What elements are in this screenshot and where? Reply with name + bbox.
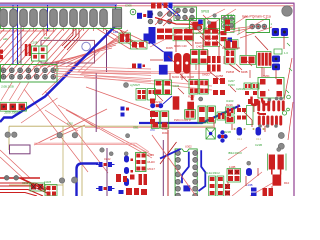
svg-text:43.2: 43.2 — [256, 137, 262, 141]
inductor bottom finger pads — [258, 116, 261, 126]
inductor pads two red bars top-right-bottom — [277, 148, 281, 152]
wire ratsnest fan from connector J101 pads — [0, 28, 114, 80]
red pads left edge y49-59 — [0, 50, 3, 54]
red vertical line x168 — [167, 130, 169, 196]
capacitor C0304 green box — [45, 185, 57, 197]
wire red diagonal down-left to x50 — [50, 125, 85, 140]
via x126 y85 — [124, 83, 129, 88]
silkscreen J209 outline — [0, 102, 27, 111]
diode D201 D202 green boxes with red bars — [191, 50, 199, 65]
purple keepout box mid-left — [41, 40, 95, 63]
wire red interconnect traces right half — [120, 30, 284, 132]
red pad cluster bottom middle — [116, 174, 121, 182]
diode pads x225-240 y40-49 — [226, 41, 231, 49]
capacitor blue capsule with via — [247, 161, 251, 165]
resistors column right of U302 — [209, 176, 216, 196]
svg-text:E320: E320 — [148, 153, 155, 157]
capacitor blue capsule pair bottom — [237, 127, 243, 136]
resistor array green box x135-146 — [136, 153, 147, 172]
via x200.7 y99 — [199, 97, 203, 101]
pad red x187 y101-110 — [187, 102, 194, 110]
diode D401 box upper — [225, 50, 235, 65]
wire pink double y143.2/144.6 — [34, 143, 149, 153]
connector J101 silkscreen outline — [1, 8, 122, 29]
vias near U401 — [197, 26, 201, 30]
svg-text:SH2D: SH2D — [202, 73, 209, 77]
svg-text:C0304: C0304 — [22, 181, 30, 185]
board outline right edge — [293, 3, 295, 196]
resistor bank x206-221 y56-72 — [207, 56, 211, 63]
svg-text:160: 160 — [113, 30, 118, 34]
fiducial green X box — [206, 128, 215, 139]
svg-text:laaa-PQmain-C11a: laaa-PQmain-C11a — [242, 15, 271, 19]
svg-text:41025: 41025 — [44, 180, 52, 184]
via holes right edge pair — [278, 133, 284, 139]
wire ratsnest fan from header J102 to upper right — [33, 30, 128, 67]
wire red 45-degree bent bundle above big box — [62, 28, 79, 50]
wire pink band upper pair y71.8/73.4 — [78, 51, 212, 72]
svg-text:840B: 840B — [241, 70, 248, 74]
capacitors C210 C211 vertical green boxes — [151, 111, 159, 128]
pads blue bottom — [251, 188, 257, 192]
svg-text:cg?202?: cg?202? — [130, 83, 141, 87]
inductor L201 serpentine red trace — [252, 97, 258, 106]
board outline top edge — [0, 2, 295, 4]
wire ratsnest bottom-left corner — [0, 150, 46, 191]
header J102 silkscreen outline — [1, 65, 58, 83]
trace blue zigzag inside U302 — [160, 149, 189, 183]
svg-text:a2b: a2b — [3, 37, 8, 41]
svg-text:IB3A R0C0: IB3A R0C0 — [228, 151, 242, 155]
component with dark X pads bottom-left — [30, 183, 45, 191]
svg-text:RL3A R3C2: RL3A R3C2 — [205, 171, 220, 175]
svg-text:L10B: L10B — [246, 183, 253, 187]
capacitor blue squares with holes x270 y55-70 — [272, 56, 280, 63]
svg-text:PWD8: PWD8 — [226, 70, 235, 74]
trace blue thin diagonals into via cluster — [162, 4, 180, 16]
wire olive vertical x82 — [81, 127, 83, 197]
resistors near C207 — [244, 83, 251, 89]
wire ratsnest below header going down-right — [1, 83, 152, 174]
svg-text:R305: R305 — [166, 46, 173, 50]
pads X-hatched column left — [225, 184, 230, 189]
svg-text:J105: J105 — [15, 60, 22, 64]
red pads left edge of right-mid x150 y98-125 — [150, 99, 155, 104]
pad U401 green box with red square — [189, 19, 204, 33]
svg-text:R10: R10 — [44, 36, 50, 40]
pad pair big red squares — [240, 56, 256, 65]
inductor top finger pads — [257, 100, 260, 111]
connector J209 pads left edge — [1, 104, 8, 111]
resistor bars x24-29 y46-56 — [25, 44, 28, 56]
svg-text:R210: R210 — [155, 100, 162, 104]
trace blue main diagonal — [115, 5, 117, 26]
svg-text:SPE8: SPE8 — [201, 10, 209, 14]
capacitor blue pair x164 y51-75 — [164, 52, 173, 62]
svg-text:C21B: C21B — [255, 143, 262, 147]
svg-text:C10B: C10B — [31, 41, 38, 45]
svg-text:J209 J304: J209 J304 — [4, 111, 18, 115]
svg-text:C205: C205 — [173, 84, 180, 88]
component left edge x225-237 y19-33 — [225, 20, 230, 25]
via x62 y180 — [59, 178, 64, 183]
resistor mid green box x184-195 — [185, 110, 196, 119]
svg-text:4102: 4102 — [67, 122, 73, 126]
transistor blue cross pads — [217, 134, 221, 138]
pad red small x190.8 y95 — [191, 95, 194, 100]
resistor bank 4 bars x257-270 — [257, 52, 272, 68]
blue pad x229 y39 — [228, 38, 233, 43]
wire red diagonals crossing via clusters — [150, 10, 230, 53]
red blob pads B-shape — [174, 53, 182, 74]
capacitors pair x136-155 y88-100 — [136, 89, 146, 101]
trace blue right of U302 — [199, 150, 206, 191]
trace red bundle bottom-left — [0, 183, 50, 196]
component top-left of middle x151-172 y2-9 — [151, 3, 156, 9]
via holes on band — [5, 132, 10, 137]
trace purple vertical x21 — [20, 24, 22, 64]
pads red bottom right bars — [263, 188, 268, 196]
wire red diagonal near U302 — [160, 142, 177, 164]
via cluster 2x3 left — [148, 12, 153, 17]
capacitors blue square pads with holes top right — [272, 28, 279, 36]
trace red top rail left — [0, 6, 117, 8]
dark blue pad x147.5 y10.5 — [147, 11, 152, 19]
IC U302 pads right column — [193, 151, 198, 156]
via pads on red trace — [4, 175, 9, 180]
pad U402 green box with red square and via — [205, 19, 220, 33]
wire pink line y127.6 — [85, 127, 213, 129]
svg-text:C407: C407 — [196, 45, 203, 49]
resistor bank rows below via clusters — [174, 29, 183, 34]
parts x216-232 y110-125 — [217, 112, 225, 120]
purple vertical line jogged — [96, 30, 107, 196]
svg-text:43.22: 43.22 — [104, 157, 111, 161]
wire red bundle from connector right end down-right — [96, 28, 150, 49]
wire red diagonal parallel to blue trace — [42, 29, 150, 110]
trace blue top rail — [0, 4, 117, 6]
capacitor bank right x204-220 y29-47 — [205, 30, 211, 34]
svg-text:MC17: MC17 — [148, 167, 156, 171]
blue vertical bar x148.5-155.5 y27-43.5 — [149, 27, 156, 44]
component with X pads bottom-right-left — [227, 169, 241, 183]
wire red diagonal below cluster — [152, 135, 196, 196]
via with green ring x133 y12 — [130, 9, 136, 15]
circle cutout in keepout box — [82, 42, 91, 51]
vias on inductor — [268, 98, 272, 102]
blue pad x143.5 y33.5 — [144, 34, 150, 42]
via on blue vertical trace — [72, 177, 78, 183]
oscillator Y401 green box with 3 holes — [246, 20, 270, 33]
capacitor blue pads pair 2 — [99, 186, 103, 191]
trace red top rail — [117, 5, 293, 7]
svg-text:R412: R412 — [227, 13, 235, 17]
capacitor C305 — [137, 13, 142, 19]
wire red connect bars to square — [272, 170, 281, 175]
via pads blue pair x152-161 y105.7 — [150, 103, 155, 108]
red bars x248-258 y99-105 — [248, 99, 253, 104]
svg-text:R203: R203 — [228, 83, 235, 87]
trace red thick diagonal below circles — [155, 18, 203, 25]
component C10B 2x2 pads — [32, 46, 48, 61]
vias small bottom middle — [109, 152, 113, 156]
wire olive vertical x63 — [9, 127, 63, 197]
IC U302 silkscreen outline with notch — [175, 149, 197, 196]
pads blue between U401 and U402 — [198, 20, 203, 25]
svg-text:C410: C410 — [237, 27, 241, 34]
purple rectangle bottom-left — [10, 145, 31, 154]
header J102 pads — [1, 68, 6, 73]
trace blue verticals from top rail x13/x17.5 — [13, 5, 18, 64]
wire red diagonal to purple rect — [34, 109, 107, 145]
svg-text:470: 470 — [150, 128, 155, 132]
pads small near x120 y107 — [121, 107, 125, 111]
pad blue rect inside U302 — [183, 185, 190, 191]
svg-text:RH20: RH20 — [148, 160, 156, 164]
svg-text:43.2: 43.2 — [237, 137, 243, 141]
svg-text:R216: R216 — [226, 103, 233, 107]
mounting hole top-right — [282, 6, 292, 16]
capacitors right pair x198-215 — [198, 106, 206, 123]
via cluster 2x3 right with silkscreen — [174, 7, 197, 21]
wire red diagonal along right border — [284, 58, 293, 140]
wire red traces bottom right — [214, 120, 272, 192]
green squares with vias 2x2 — [222, 16, 228, 22]
wire pink diverging lines below pair — [80, 75, 212, 91]
trace red thick bottom-left with vias — [0, 178, 46, 190]
resistor with green outline x119-130 y33-43 — [119, 33, 131, 43]
trace blue bottom-left L-path — [77, 164, 99, 197]
green rings right of inductor — [282, 111, 286, 115]
parts x132-144 y63-69 — [132, 64, 136, 69]
svg-text:J10B 210B: J10B 210B — [1, 85, 14, 89]
IC U302 pads left column — [175, 151, 180, 156]
wire ratsnest bottom-right — [228, 147, 281, 196]
svg-text:C305: C305 — [125, 4, 132, 8]
wire red to oscillator — [230, 27, 252, 33]
trace blue long horizontal y123 — [139, 106, 240, 124]
trace blue stub x47.5 — [47, 5, 49, 31]
svg-text:R10: R10 — [284, 181, 290, 185]
pad red tall x172.7 y96-110 — [173, 96, 180, 109]
purple vertical line x163.3 — [162, 140, 164, 196]
red pads x132-147 y42-48 with outline — [131, 41, 148, 49]
wire olive keepout horizontal y126.2 — [9, 126, 213, 150]
capacitors C205 pair lower-left of cluster — [155, 80, 163, 95]
svg-text:R21B: R21B — [224, 130, 231, 134]
pad red square below bars — [273, 175, 282, 186]
capacitor blue capsules column x126 — [124, 156, 129, 163]
svg-text:R302: R302 — [162, 131, 169, 135]
resistor rows right of blue bar — [157, 29, 164, 33]
svg-text:1.0: 1.0 — [284, 51, 288, 55]
green diagonal ticks near right border — [286, 43, 292, 93]
capacitor blue pads pair 1 — [99, 162, 103, 167]
svg-text:GB1: GB1 — [133, 126, 139, 130]
wire red extra interconnects — [157, 36, 264, 101]
svg-text:C203A: C203A — [236, 87, 245, 91]
green element top right corner — [274, 49, 282, 54]
resistor pads x212-225 y78-96 — [213, 78, 218, 84]
svg-text:U302: U302 — [185, 145, 192, 149]
connector J101 pads — [0, 9, 7, 27]
op-amp U201 footprint — [258, 78, 284, 99]
wire ratsnest top-right around mounting hole — [150, 9, 272, 47]
svg-text:C406: C406 — [204, 34, 211, 38]
svg-text:P204 C204 R: P204 C204 R — [174, 118, 191, 122]
resistors R205 R206 mid — [189, 80, 198, 95]
wire red fan from header right to mid cluster — [54, 66, 151, 82]
resistors column left of serpentine — [226, 107, 235, 114]
